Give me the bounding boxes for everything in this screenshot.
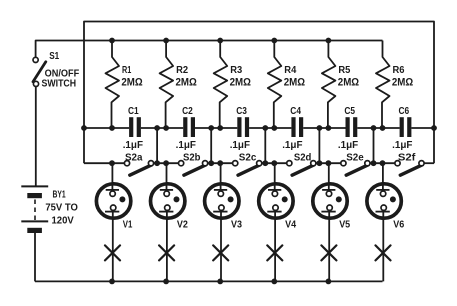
svg-text:R3: R3 [230, 65, 242, 76]
svg-text:2MΩ: 2MΩ [230, 77, 251, 89]
svg-text:C4: C4 [290, 105, 301, 117]
svg-text:.1μF: .1μF [392, 139, 413, 151]
svg-text:.1μF: .1μF [176, 139, 197, 151]
svg-text:R5: R5 [338, 65, 350, 76]
svg-text:2MΩ: 2MΩ [121, 77, 142, 89]
svg-text:2MΩ: 2MΩ [338, 77, 359, 89]
svg-text:120V: 120V [52, 215, 74, 227]
svg-text:S1: S1 [49, 51, 59, 62]
svg-text:V5: V5 [339, 219, 350, 231]
svg-text:BY1: BY1 [53, 189, 66, 200]
svg-text:.1μF: .1μF [230, 139, 251, 151]
svg-text:V2: V2 [177, 219, 188, 231]
svg-text:R6: R6 [393, 65, 405, 76]
svg-text:V6: V6 [393, 219, 404, 231]
svg-text:S2e: S2e [346, 151, 364, 163]
svg-text:2MΩ: 2MΩ [284, 77, 305, 89]
svg-text:V4: V4 [285, 219, 296, 231]
svg-text:S2d: S2d [294, 151, 312, 163]
svg-text:R1: R1 [122, 65, 132, 76]
svg-text:2MΩ: 2MΩ [176, 77, 197, 89]
svg-text:75V TO: 75V TO [45, 201, 78, 213]
svg-text:C3: C3 [236, 105, 247, 117]
svg-text:R2: R2 [176, 65, 188, 76]
svg-text:SWITCH: SWITCH [42, 77, 77, 89]
svg-text:S2b: S2b [183, 151, 201, 163]
svg-text:.1μF: .1μF [123, 139, 144, 151]
svg-text:V3: V3 [231, 219, 242, 231]
svg-text:S2a: S2a [125, 151, 143, 163]
svg-text:S2f: S2f [398, 151, 416, 163]
svg-text:C5: C5 [344, 105, 355, 117]
svg-text:C1: C1 [128, 105, 139, 117]
svg-text:.1μF: .1μF [282, 139, 303, 151]
svg-text:S2c: S2c [239, 151, 257, 163]
svg-text:V1: V1 [123, 219, 133, 231]
svg-text:C2: C2 [182, 105, 193, 117]
svg-text:C6: C6 [399, 105, 410, 117]
svg-text:R4: R4 [284, 65, 296, 76]
svg-text:.1μF: .1μF [338, 139, 359, 151]
svg-text:2MΩ: 2MΩ [392, 77, 413, 89]
